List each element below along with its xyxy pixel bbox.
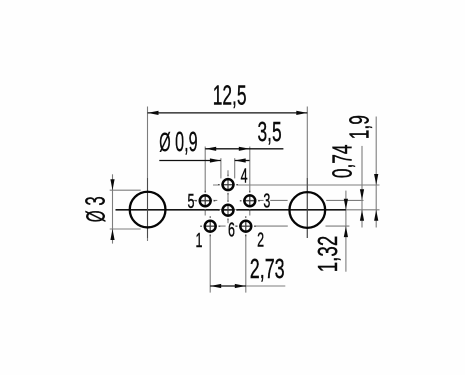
svg-text:4: 4 bbox=[241, 165, 248, 188]
svg-text:1,32: 1,32 bbox=[312, 236, 344, 273]
svg-text:2,73: 2,73 bbox=[250, 253, 285, 284]
svg-text:Ø 3: Ø 3 bbox=[79, 196, 111, 222]
svg-text:0,74: 0,74 bbox=[326, 144, 357, 178]
svg-text:3,5: 3,5 bbox=[258, 116, 282, 147]
svg-text:1,9: 1,9 bbox=[343, 115, 374, 139]
svg-text:2: 2 bbox=[257, 228, 264, 251]
svg-text:12,5: 12,5 bbox=[213, 79, 247, 110]
svg-text:3: 3 bbox=[263, 189, 270, 212]
svg-text:Ø 0,9: Ø 0,9 bbox=[159, 125, 197, 157]
svg-text:5: 5 bbox=[188, 190, 195, 213]
svg-text:6: 6 bbox=[228, 219, 235, 242]
svg-text:1: 1 bbox=[196, 229, 203, 252]
